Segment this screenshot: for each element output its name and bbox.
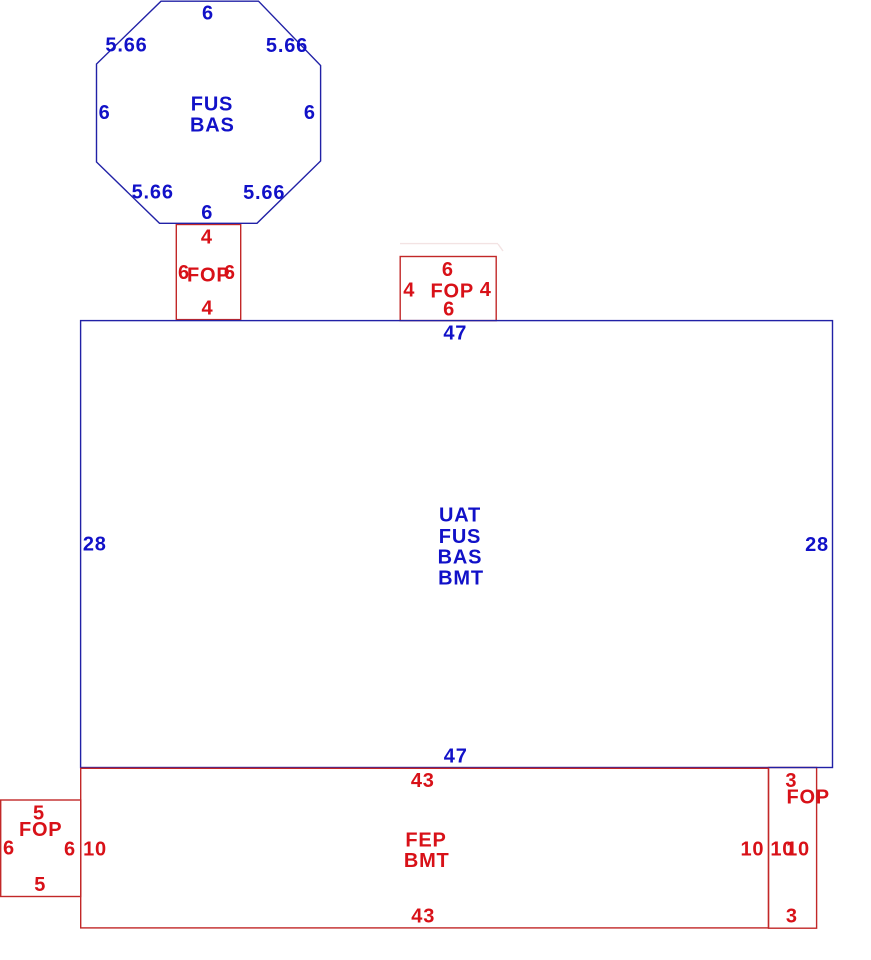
svg-text:6: 6	[99, 102, 111, 124]
svg-text:FEP: FEP	[405, 830, 446, 852]
faint ghost line above top-middle FOP	[400, 244, 503, 251]
svg-text:6: 6	[3, 838, 15, 860]
svg-text:4: 4	[202, 298, 214, 320]
FOP rectangle below octagon	[176, 225, 240, 320]
svg-text:4: 4	[403, 280, 415, 302]
octagon FUS BAS	[97, 1, 321, 223]
svg-text:47: 47	[443, 323, 467, 345]
FOP rectangle top middle	[400, 257, 496, 321]
svg-text:43: 43	[411, 770, 435, 792]
FOP rectangle bottom right (drawn first so blue line overlaps its top)	[769, 768, 817, 929]
svg-text:6: 6	[224, 262, 236, 284]
svg-text:FOP: FOP	[786, 787, 830, 809]
svg-text:4: 4	[201, 227, 213, 249]
svg-text:28: 28	[805, 534, 829, 556]
svg-text:5.66: 5.66	[132, 181, 174, 203]
svg-text:FUS: FUS	[439, 526, 481, 548]
svg-text:BMT: BMT	[438, 568, 484, 590]
svg-text:FOP: FOP	[19, 819, 63, 841]
svg-text:10: 10	[740, 839, 764, 861]
svg-text:5: 5	[34, 874, 46, 896]
svg-text:3: 3	[786, 906, 798, 928]
svg-text:43: 43	[411, 905, 435, 927]
svg-text:5.66: 5.66	[105, 35, 147, 57]
svg-text:28: 28	[83, 534, 107, 556]
svg-text:6: 6	[304, 102, 316, 124]
svg-text:10: 10	[83, 839, 107, 861]
svg-text:47: 47	[444, 745, 468, 767]
svg-text:10: 10	[786, 839, 810, 861]
svg-text:6: 6	[442, 259, 454, 281]
svg-text:6: 6	[443, 298, 455, 320]
main rectangle UAT FUS BAS BMT	[81, 321, 833, 768]
svg-text:6: 6	[202, 3, 214, 25]
FOP rectangle bottom left	[1, 800, 81, 897]
FEP BMT rectangle	[81, 768, 769, 928]
svg-text:UAT: UAT	[439, 505, 481, 527]
svg-text:6: 6	[64, 838, 76, 860]
svg-text:BMT: BMT	[404, 850, 450, 872]
svg-text:5.66: 5.66	[243, 182, 285, 204]
svg-text:5.66: 5.66	[266, 35, 308, 57]
svg-text:BAS: BAS	[438, 547, 483, 569]
svg-text:BAS: BAS	[190, 115, 235, 137]
svg-text:4: 4	[480, 279, 492, 301]
svg-text:6: 6	[201, 202, 213, 224]
svg-text:FUS: FUS	[191, 94, 233, 116]
